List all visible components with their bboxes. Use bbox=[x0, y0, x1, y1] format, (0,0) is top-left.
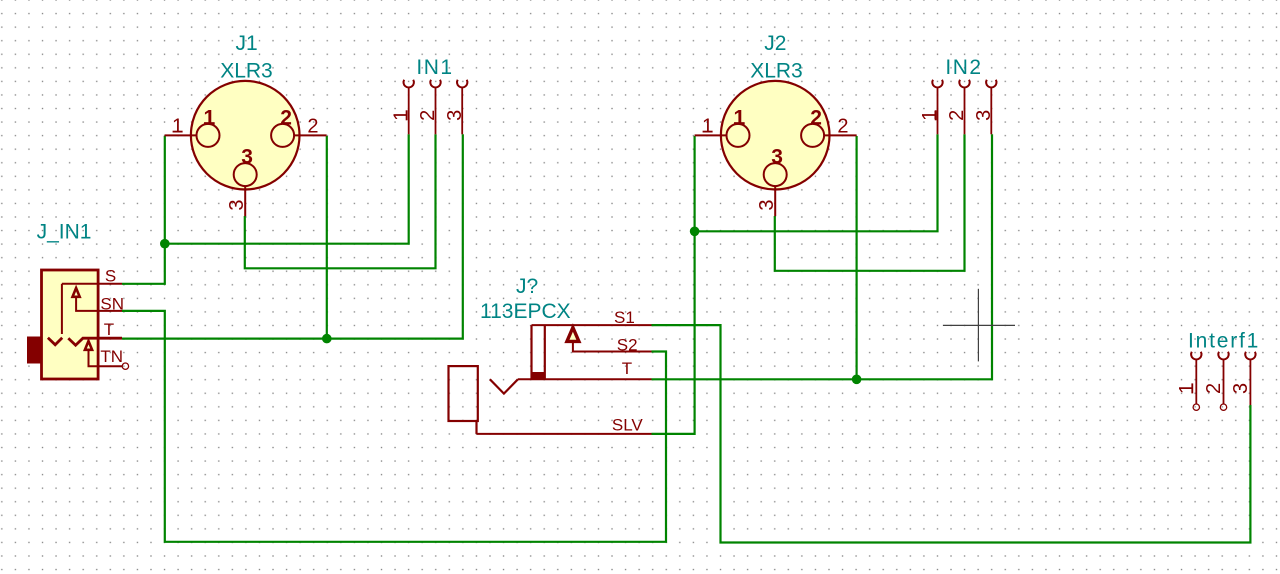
svg-text:2: 2 bbox=[417, 110, 439, 121]
svg-text:1: 1 bbox=[702, 116, 713, 138]
svg-text:3: 3 bbox=[1230, 383, 1252, 394]
svg-text:XLR3: XLR3 bbox=[220, 60, 273, 83]
svg-text:2: 2 bbox=[1203, 383, 1225, 394]
svg-text:J1: J1 bbox=[236, 32, 258, 55]
svg-text:IN1: IN1 bbox=[416, 56, 453, 79]
svg-text:SLV: SLV bbox=[612, 415, 644, 434]
svg-text:1: 1 bbox=[172, 116, 183, 138]
svg-text:2: 2 bbox=[810, 107, 822, 130]
svg-text:1: 1 bbox=[203, 107, 215, 130]
svg-text:J2: J2 bbox=[764, 32, 786, 55]
svg-text:TN: TN bbox=[100, 347, 123, 366]
svg-text:3: 3 bbox=[226, 199, 248, 210]
svg-text:3: 3 bbox=[444, 110, 466, 121]
svg-text:2: 2 bbox=[946, 110, 968, 121]
svg-text:S2: S2 bbox=[617, 336, 638, 355]
svg-text:Interf1: Interf1 bbox=[1188, 330, 1260, 353]
svg-text:S: S bbox=[105, 267, 116, 286]
svg-text:SN: SN bbox=[100, 295, 124, 314]
svg-text:1: 1 bbox=[1176, 383, 1198, 394]
svg-text:2: 2 bbox=[280, 107, 292, 130]
svg-text:3: 3 bbox=[756, 199, 778, 210]
svg-text:T: T bbox=[622, 359, 632, 378]
svg-text:3: 3 bbox=[241, 146, 253, 169]
svg-text:3: 3 bbox=[771, 146, 783, 169]
svg-text:3: 3 bbox=[973, 110, 995, 121]
svg-text:T: T bbox=[104, 320, 114, 339]
svg-text:S1: S1 bbox=[614, 308, 635, 327]
svg-text:1: 1 bbox=[919, 110, 941, 121]
svg-text:XLR3: XLR3 bbox=[750, 60, 803, 83]
svg-text:J?: J? bbox=[516, 275, 538, 298]
svg-text:2: 2 bbox=[307, 116, 318, 138]
svg-text:113EPCX: 113EPCX bbox=[480, 300, 571, 323]
svg-text:2: 2 bbox=[837, 116, 848, 138]
svg-text:J_IN1: J_IN1 bbox=[37, 220, 92, 243]
svg-text:1: 1 bbox=[390, 110, 412, 121]
svg-text:IN2: IN2 bbox=[945, 56, 982, 79]
svg-text:1: 1 bbox=[733, 107, 745, 130]
